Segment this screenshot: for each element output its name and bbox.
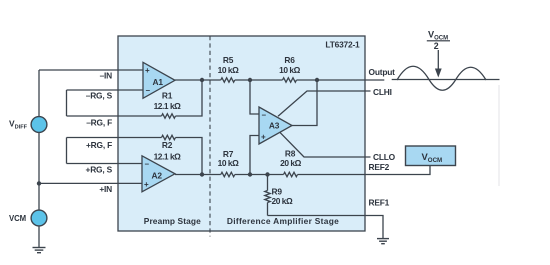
svg-text:+: + [144,180,149,189]
source VCM [31,210,47,226]
node R9 top [265,172,269,176]
node A3 minus [248,78,252,82]
wire CLHI [278,91,371,116]
svg-text:–RG, S: –RG, S [86,91,113,101]
wire R2 to A2 output node [176,138,203,175]
node A3 plus [248,172,252,176]
svg-text:CLHI: CLHI [373,87,392,97]
resistor R2 [162,135,176,139]
wire R1 to A1 output node [176,80,203,116]
stage divider dashed line [209,36,211,237]
svg-text:REF1: REF1 [369,198,390,208]
op-amp A1 [143,62,175,98]
svg-text:LT6372-1: LT6372-1 [325,40,360,50]
svg-text:Difference Amplifier Stage: Difference Amplifier Stage [227,216,339,226]
wire R8 to VOCM [298,166,431,175]
wire +RG bracket [66,138,68,164]
resistor R1 [162,114,176,118]
svg-text:REF2: REF2 [369,162,390,172]
svg-text:12.1 kΩ: 12.1 kΩ [154,152,182,162]
resistor R8 [284,172,298,176]
wire R7 to R8 [235,174,284,176]
box VOCM [406,146,456,166]
wire A3 minus input [250,80,259,114]
wire REF1 [268,216,384,239]
svg-text:+RG, S: +RG, S [86,165,113,175]
ground right [377,239,389,244]
wire VDIFF to +IN node [38,132,40,210]
svg-text:Preamp Stage: Preamp Stage [144,216,201,226]
svg-text:10 kΩ: 10 kΩ [279,65,301,75]
resistor R6 [283,78,297,82]
resistor R9 [265,175,270,216]
svg-text:R8: R8 [285,149,296,159]
resistor R5 [221,78,235,82]
source VDIFF [31,117,47,133]
wire -IN [39,69,143,71]
svg-text:20 kΩ: 20 kΩ [272,196,294,206]
svg-text:A1: A1 [153,77,164,87]
wire sine baseline [392,79,500,81]
svg-text:–: – [262,111,267,120]
op-amp A2 [142,156,175,192]
svg-text:+IN: +IN [99,184,112,194]
svg-text:+RG, F: +RG, F [86,140,112,150]
node +IN junction [37,181,41,185]
label VOCM/2 fraction [427,30,450,51]
bottom rail: A2 out to REF2 [175,174,221,176]
wire VCM to ground [38,226,40,248]
svg-text:Output: Output [369,67,396,77]
wire +RG,F / R2 feedback line [67,137,162,139]
svg-text:–RG, F: –RG, F [86,118,112,128]
svg-text:2: 2 [434,41,439,51]
svg-text:CLLO: CLLO [373,152,396,162]
svg-text:R6: R6 [284,55,295,65]
node output sense [315,78,319,82]
svg-text:R1: R1 [162,90,173,100]
svg-text:R5: R5 [223,55,234,65]
op-amp A3 [259,107,292,144]
wire -RG,S [67,89,144,91]
wire CLLO [280,132,371,157]
IC body box LT6372-1 [118,36,365,231]
svg-text:R2: R2 [162,140,173,150]
wire -IN vertical to VDIFF [38,70,40,117]
svg-text:–IN: –IN [100,71,113,81]
resistor R7 [221,172,235,176]
faint card edge [498,85,500,186]
ground left [33,248,46,253]
wire +IN [39,182,142,184]
svg-text:–: – [146,86,151,95]
wire -RG,F / R1 feedback line [67,115,162,117]
wire A3 plus input [250,136,259,175]
svg-text:–: – [145,160,150,169]
wire A3 output to sense node [292,80,317,126]
svg-text:VCM: VCM [9,214,26,223]
wire R6 to box edge / Output [297,79,385,81]
wire -RG bracket [66,90,68,116]
svg-text:+: + [145,66,150,75]
sine wave on output [397,66,486,90]
svg-text:+: + [261,133,266,142]
node A2 out [200,172,204,176]
svg-text:10 kΩ: 10 kΩ [218,65,240,75]
svg-text:R9: R9 [272,187,283,197]
svg-text:12.1 kΩ: 12.1 kΩ [154,101,182,111]
svg-text:20 kΩ: 20 kΩ [280,158,302,168]
top rail: A1 out to Output [175,79,221,81]
wire R5 to R6 [235,79,283,81]
svg-text:A2: A2 [152,171,163,181]
svg-text:A3: A3 [269,120,280,130]
svg-text:10 kΩ: 10 kΩ [218,158,240,168]
node A1 out [200,78,204,82]
wire +RG,S [67,163,143,165]
arrow VOCM/2 [435,50,442,78]
